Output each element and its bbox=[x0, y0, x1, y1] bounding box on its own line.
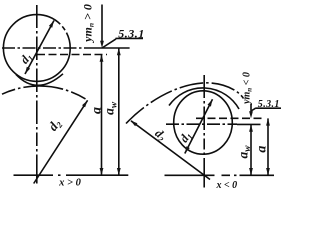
arrowhead a_w bottom (right) bbox=[249, 168, 253, 175]
arrowhead a_w top (left) bbox=[117, 48, 121, 55]
arrowhead d2 (left) bbox=[82, 100, 88, 107]
svg-text:ymn < 0: ymn < 0 bbox=[241, 72, 253, 105]
gear 1 pitch circle d1 (right) bbox=[174, 91, 233, 154]
gear 2 tip arc (crescent under circle, left) bbox=[16, 74, 63, 86]
gear 2 pitch arc d2 (dash-dot, right) bbox=[126, 83, 244, 124]
arrowhead a bottom (right) bbox=[266, 168, 270, 175]
svg-text:5.3.1: 5.3.1 bbox=[258, 99, 280, 110]
svg-text:x < 0: x < 0 bbox=[215, 180, 237, 191]
arrowhead d1 upper (left) bbox=[49, 21, 54, 28]
svg-text:a: a bbox=[254, 146, 269, 153]
arrowhead ym_n down (right) bbox=[249, 111, 253, 118]
dimension line a (left) bbox=[101, 55, 103, 176]
arrowhead a top (right) bbox=[266, 118, 270, 125]
dimension line d1 (left) bbox=[25, 21, 54, 75]
arrowhead a_w bottom (left) bbox=[117, 168, 121, 175]
arrowhead a top (left) bbox=[100, 55, 104, 62]
dashed reference line (a level, right) bbox=[196, 117, 264, 119]
vertical centerline gear1/gear2 (left) bbox=[36, 5, 38, 184]
horizontal centerline gear 1 (right) bbox=[166, 123, 237, 125]
gear 2 centerline horizontal (right) bbox=[165, 174, 275, 176]
horizontal centerline gear 1 (left), dash-dot bbox=[2, 47, 94, 49]
vertical centerline (right) bbox=[203, 75, 205, 188]
gear 2 centerline horizontal (left) bbox=[14, 174, 129, 176]
gear 2 tip arc (crescent above circle, right) bbox=[169, 88, 239, 109]
leader line 5.3.1 (right) bbox=[251, 108, 256, 111]
dimension line a_w (left) bbox=[118, 48, 120, 175]
dimension line a (right) bbox=[267, 118, 269, 175]
extension line at gear1 center level (left) bbox=[94, 47, 130, 49]
dimension line d2 (left) bbox=[34, 100, 88, 183]
arrowhead a_w top (right) bbox=[249, 125, 253, 132]
arrowhead d2 (right) bbox=[131, 121, 138, 127]
underline 5.3.1 (left) bbox=[116, 37, 144, 39]
svg-text:x > 0: x > 0 bbox=[58, 177, 81, 188]
arrowhead d1 upper (right) bbox=[208, 99, 213, 106]
underline 5.3.1 (right) bbox=[255, 107, 281, 109]
arrowhead d1 lower (right) bbox=[185, 146, 190, 153]
dimension line d2 (right) bbox=[131, 121, 210, 180]
dimension line d1 (right) bbox=[185, 99, 213, 153]
arrowhead d1 lower (left) bbox=[25, 67, 30, 74]
dimension line ym_n upper segment (left) bbox=[101, 5, 103, 44]
dimension line a_w (right) bbox=[250, 125, 252, 176]
svg-text:5.3.1: 5.3.1 bbox=[118, 27, 145, 41]
gear 2 pitch arc (dash-dot, left) bbox=[2, 86, 88, 100]
gear 1 pitch circle d1 (left) bbox=[3, 15, 70, 82]
dashed reference line (a level, left) bbox=[37, 54, 107, 56]
arrowhead ym_n down (left) bbox=[100, 41, 104, 48]
extension at gear1 center level (right) bbox=[237, 123, 261, 125]
leader line 5.3.1 (left) bbox=[102, 39, 116, 48]
arrowhead a bottom (left) bbox=[100, 168, 104, 175]
